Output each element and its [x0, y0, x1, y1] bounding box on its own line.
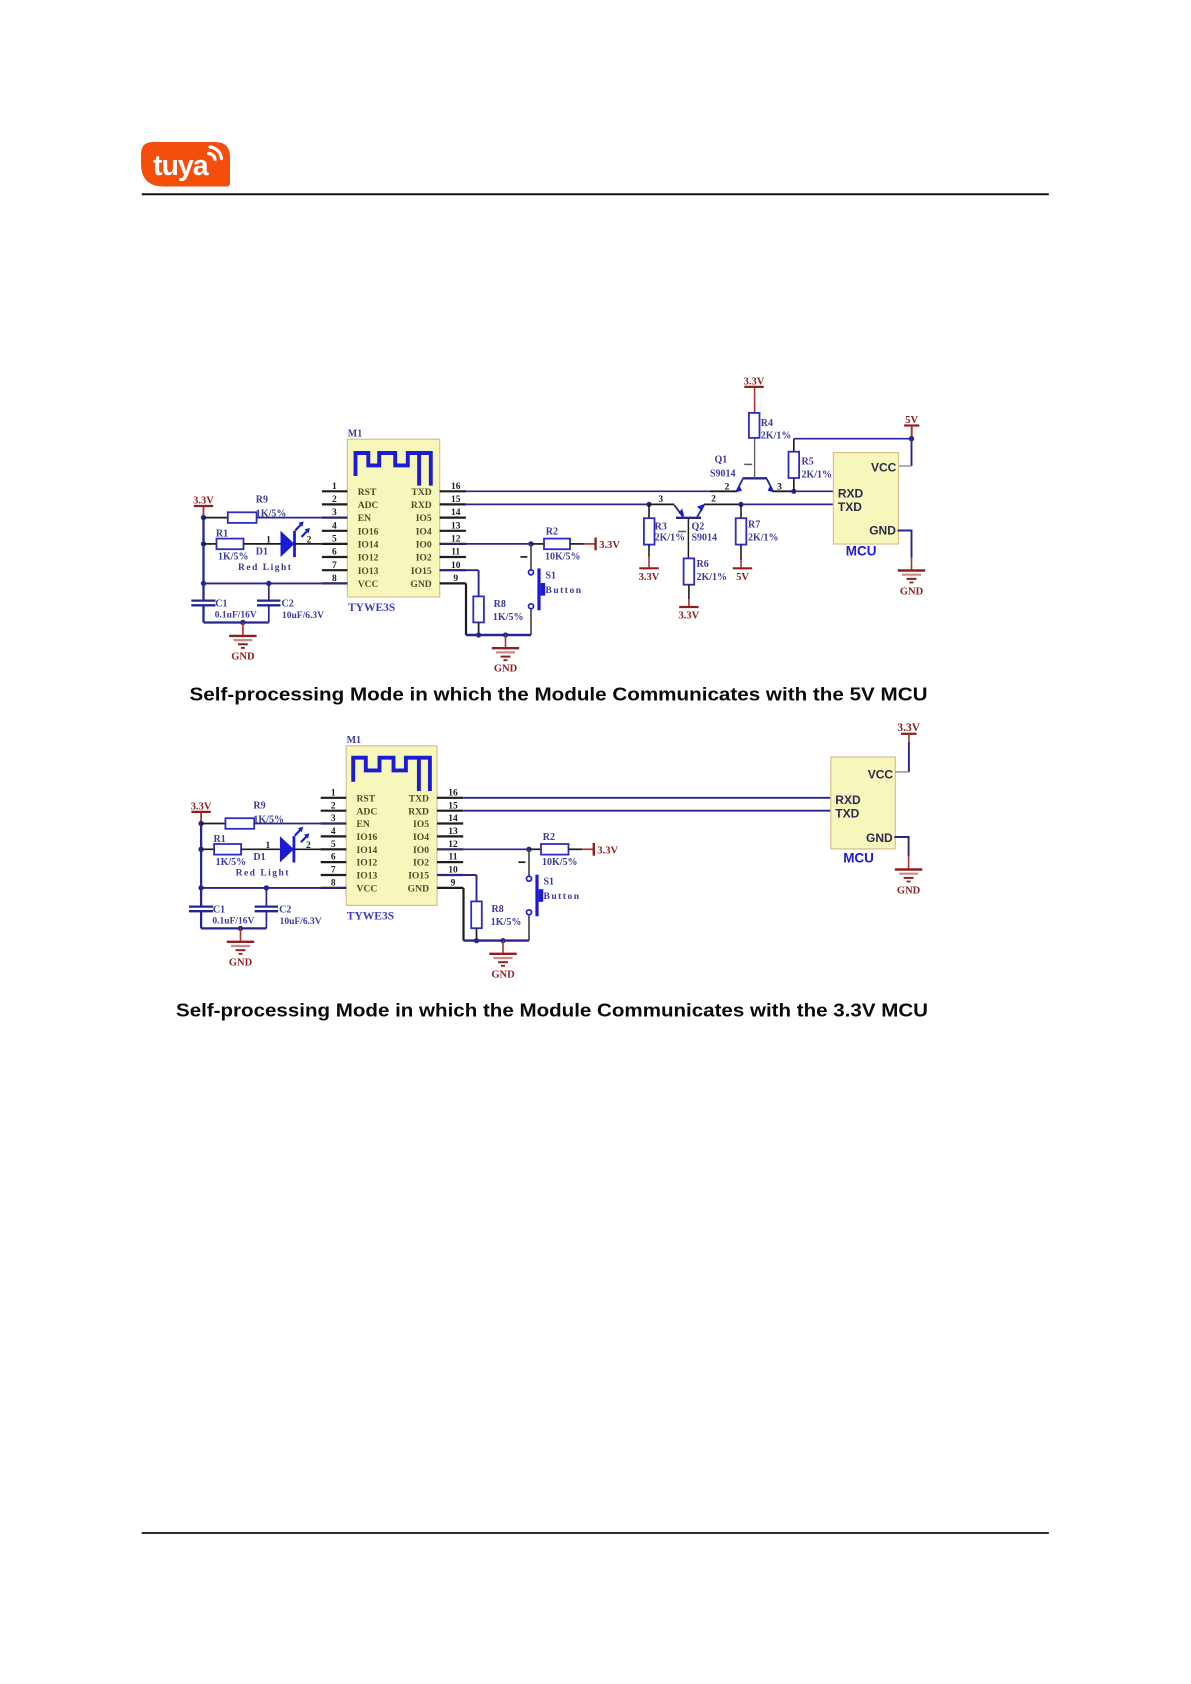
svg-text:2K/1%: 2K/1% [761, 431, 792, 442]
wire MCU GND elbow [899, 531, 912, 558]
wire D1 to IO14 pin s1 [295, 543, 348, 545]
svg-text:IO2: IO2 [416, 553, 432, 564]
svg-text:Button: Button [546, 586, 583, 596]
switch S1 s1 button body [541, 583, 546, 596]
svg-text:1: 1 [266, 841, 271, 851]
svg-text:12: 12 [451, 535, 461, 545]
capacitor C2 s2 plates [255, 905, 279, 907]
svg-text:IO14: IO14 [358, 540, 379, 551]
svg-text:M1: M1 [348, 429, 362, 440]
module M1 pin 8 (VCC) stub [322, 582, 348, 584]
Tuya logo badge [141, 142, 230, 187]
svg-text:GND: GND [900, 587, 924, 598]
svg-text:TYWE3S: TYWE3S [347, 910, 394, 922]
svg-text:R3: R3 [655, 521, 667, 532]
wire left rail lower s1 [202, 605, 204, 622]
svg-text:3.3V: 3.3V [193, 495, 214, 506]
svg-text:15: 15 [451, 495, 461, 505]
module M1 antenna waveform [353, 758, 430, 789]
svg-text:16: 16 [448, 788, 458, 798]
resistor R2-s2 body [541, 844, 569, 855]
wire left rail upper s1 [202, 518, 204, 601]
ground mcu-s2 stem [908, 856, 910, 869]
svg-text:7: 7 [332, 561, 337, 571]
wire 3.3V to MCU VCC (schematic 2) [908, 735, 910, 742]
wire R9 to EN pin s1 [257, 517, 348, 519]
module M1 pin 6 (IO12) stub [321, 861, 347, 863]
ground mid-s2 bars [489, 953, 516, 955]
power 3.3V-left-s1 bar [194, 505, 213, 507]
node R7 junction [738, 502, 743, 507]
svg-text:10uF/6.3V: 10uF/6.3V [280, 917, 322, 927]
resistor R8-s2 body [471, 901, 482, 928]
MCU U1 body [833, 453, 898, 544]
svg-text:RXD: RXD [411, 500, 432, 511]
svg-text:R9: R9 [253, 800, 265, 811]
svg-text:4: 4 [332, 521, 337, 531]
svg-text:IO15: IO15 [411, 566, 432, 577]
module M1 pin 1 (RST) stub [321, 797, 347, 799]
wire TXD row A to Q1 [466, 490, 710, 492]
svg-text:5V: 5V [905, 415, 918, 426]
switch S1 s1 actuator bar [537, 568, 540, 610]
wire R8 to ground rail s2 [476, 928, 478, 940]
wire R2 to 3.3V tap s2 [569, 848, 583, 850]
switch S1 s2 button body [539, 889, 544, 902]
wire R1 to D1 s2 [241, 848, 280, 850]
svg-text:IO16: IO16 [358, 526, 379, 537]
svg-text:R8: R8 [494, 599, 506, 610]
module M1 pin 2 (ADC) stub [321, 810, 347, 812]
resistor R8-s1 body [473, 596, 484, 622]
wire ground rail s2 [464, 939, 530, 941]
svg-text:1: 1 [331, 788, 336, 798]
module M1 pin 16 (TXD) stub [437, 797, 463, 799]
svg-text:2K/1%: 2K/1% [697, 572, 728, 583]
wire Q2 emitter lead [649, 503, 674, 505]
svg-text:TYWE3S: TYWE3S [348, 602, 395, 614]
wire R3 top lead [648, 504, 650, 518]
svg-text:GND: GND [491, 969, 515, 980]
svg-text:D1: D1 [253, 852, 265, 863]
node R8 ground junction s1 [476, 632, 481, 637]
LED D1 s1 emission arrow 2 [302, 530, 309, 537]
wire R2 to 3.3V tap s1 [570, 543, 584, 545]
svg-text:C2: C2 [282, 599, 294, 610]
wire rail to R1 s2 [201, 848, 214, 850]
svg-text:IO4: IO4 [416, 526, 432, 537]
svg-text:IO0: IO0 [416, 540, 432, 551]
node ground junction s2 [238, 926, 243, 931]
node ground junction s1 [240, 620, 245, 625]
switch S1 s2 bottom contact [527, 910, 532, 915]
module M1 pin 4 (IO16) stub [321, 835, 347, 837]
svg-text:IO0: IO0 [413, 845, 429, 856]
svg-text:2K/1%: 2K/1% [655, 532, 686, 543]
svg-text:TXD: TXD [411, 487, 431, 498]
module M1 antenna waveform [356, 453, 431, 484]
svg-text:0.1uF/16V: 0.1uF/16V [212, 917, 254, 927]
module M1 pin 4 (IO16) stub [322, 530, 348, 532]
switch S1 s2 actuator bar [535, 875, 538, 917]
svg-text:5: 5 [332, 535, 337, 545]
wire S1 to ground rail s2 [528, 915, 530, 941]
module M1 body [346, 746, 437, 906]
transistor Q2 polarity dash [678, 531, 686, 533]
Tuya logo wifi arc small [209, 153, 216, 159]
svg-text:GND: GND [229, 957, 253, 968]
resistor R9-s2 body [225, 818, 254, 829]
svg-text:tuya: tuya [153, 150, 210, 182]
svg-text:GND: GND [494, 664, 518, 675]
node R5 bottom junction [791, 489, 796, 494]
svg-text:2: 2 [331, 801, 336, 811]
module M1 pin 15 (RXD) stub [437, 810, 463, 812]
svg-text:9: 9 [451, 879, 456, 889]
svg-text:3.3V: 3.3V [897, 722, 920, 734]
capacitor C1 s1 plates [191, 599, 215, 601]
wire rail to R1 s1 [204, 543, 217, 545]
svg-text:IO5: IO5 [413, 819, 429, 830]
wire junction to MCU RXD [794, 490, 834, 492]
transistor Q1 emitter arrow [736, 485, 742, 492]
wire 3.3V to R4 [754, 388, 756, 413]
module M1 pin 14 (IO5) stub [437, 822, 463, 824]
svg-text:VCC: VCC [868, 768, 894, 782]
svg-text:RXD: RXD [408, 806, 429, 817]
footer rule [142, 1532, 1049, 1534]
wire R3 bottom lead [648, 545, 650, 557]
svg-text:1K/5%: 1K/5% [493, 612, 524, 623]
wire IO15 pin elbow s1 [440, 569, 479, 571]
svg-text:14: 14 [448, 814, 458, 824]
resistor R6 body [684, 558, 695, 584]
svg-text:IO12: IO12 [358, 553, 379, 564]
svg-text:7: 7 [331, 866, 336, 876]
svg-text:IO13: IO13 [358, 566, 379, 577]
resistor R1-s1 body [217, 539, 244, 550]
node 5V rail junction [909, 436, 914, 441]
module M1 pin 1 (RST) stub [322, 490, 348, 492]
module M1 pin 10 (IO15) stub [437, 874, 463, 876]
module M1 pin 9 (GND) stub [440, 582, 466, 584]
svg-text:10K/5%: 10K/5% [545, 552, 581, 563]
svg-text:13: 13 [448, 827, 458, 837]
svg-text:GND: GND [869, 524, 896, 538]
power 3.3V-R3 bar [639, 567, 658, 569]
svg-text:RST: RST [358, 487, 377, 498]
module M1 pin 12 (IO0) stub [440, 543, 466, 545]
wire left rail lower s2 [200, 911, 202, 928]
svg-text:16: 16 [451, 482, 461, 492]
svg-text:3: 3 [331, 814, 336, 824]
transistor Q2 collector arrow [697, 504, 705, 511]
svg-text:TXD: TXD [835, 806, 859, 820]
LED D1 s1 triangle [281, 531, 295, 557]
resistor R9-s1 body [228, 512, 257, 523]
svg-text:11: 11 [449, 853, 458, 863]
resistor R7 body [736, 518, 747, 544]
polarity dash near S1 s1 [520, 556, 527, 558]
svg-text:3: 3 [658, 495, 663, 505]
node R3 junction [646, 502, 651, 507]
svg-text:12: 12 [448, 840, 458, 850]
svg-text:IO15: IO15 [408, 871, 429, 882]
power 3.3V rail top s1 stem [203, 506, 205, 518]
wire Q1 collector lead [773, 490, 794, 492]
svg-text:Q1: Q1 [715, 455, 728, 466]
svg-text:2: 2 [332, 495, 337, 505]
svg-text:RXD: RXD [835, 793, 861, 807]
wire GND pin 9 elbow s2 [462, 887, 464, 889]
svg-text:S1: S1 [544, 877, 555, 888]
node VCC-row junction s1 [201, 581, 206, 586]
svg-text:3: 3 [332, 508, 337, 518]
svg-text:TXD: TXD [838, 500, 862, 514]
svg-text:R2: R2 [546, 527, 558, 538]
ground left-s1 bars [229, 635, 256, 637]
svg-text:2: 2 [711, 494, 716, 504]
module M1 pin 14 (IO5) stub [440, 516, 466, 518]
module M1 pin 7 (IO13) stub [322, 569, 348, 571]
wire MCU GND elbow (schematic 2) [895, 837, 908, 856]
svg-text:15: 15 [448, 801, 458, 811]
svg-text:S9014: S9014 [692, 533, 718, 544]
svg-text:IO14: IO14 [357, 845, 378, 856]
module M1 pin 3 (EN) stub [322, 516, 348, 518]
capacitor C2 s1 lead lower [268, 605, 270, 622]
wire left rail upper s2 [200, 824, 202, 907]
ground mcu-s1 stem [911, 557, 913, 570]
node EN-row junction s2 [198, 821, 203, 826]
resistor R4 body [749, 413, 760, 438]
wire junction to R2 s1 [531, 543, 544, 545]
svg-text:3.3V: 3.3V [744, 376, 765, 387]
svg-text:GND: GND [410, 579, 431, 590]
module M1 pin 13 (IO4) stub [437, 835, 463, 837]
module M1 pin 6 (IO12) stub [322, 556, 348, 558]
svg-text:MCU: MCU [843, 851, 874, 866]
svg-text:S9014: S9014 [710, 469, 736, 480]
svg-text:C2: C2 [279, 905, 291, 916]
transistor Q1 collector slant [767, 479, 773, 491]
node C2 top junction s2 [264, 885, 269, 890]
LED D1 s1 emission arrow 1 [295, 523, 302, 530]
svg-text:VCC: VCC [358, 579, 379, 590]
svg-text:13: 13 [451, 521, 461, 531]
node C2 top junction s1 [266, 581, 271, 586]
module M1 pin 2 (ADC) stub [322, 503, 348, 505]
svg-text:14: 14 [451, 508, 461, 518]
header rule [142, 193, 1049, 195]
module M1 pin 9 (GND) stub [437, 887, 463, 889]
svg-text:R2: R2 [543, 832, 555, 843]
LED D1 s2 triangle [280, 836, 294, 862]
resistor R2-s1 body [544, 539, 570, 550]
power 3.3V-mcu2 bar [901, 733, 917, 735]
resistor R3 body [644, 518, 655, 544]
power 3.3V-left-s2 bar [191, 811, 210, 813]
module M1 pin 15 (RXD) stub [440, 503, 466, 505]
resistor R5 body [789, 452, 800, 478]
module M1 pin 13 (IO4) stub [440, 530, 466, 532]
svg-text:3.3V: 3.3V [639, 572, 660, 583]
switch S1 s1 bottom contact [529, 604, 534, 609]
svg-text:5V: 5V [736, 572, 749, 583]
wire module RXD to MCU TXD (schematic 2) [463, 810, 831, 812]
resistor R1-s2 body [214, 844, 241, 855]
module M1 pin 11 (IO2) stub [437, 861, 463, 863]
svg-text:M1: M1 [347, 735, 361, 746]
node ground symbol junction s1 [503, 632, 508, 637]
svg-text:D1: D1 [256, 547, 268, 558]
svg-text:MCU: MCU [846, 543, 877, 558]
wire 5V to rail junction [911, 427, 913, 439]
module M1 pin 12 (IO0) stub [437, 848, 463, 850]
wire Q1 emitter lead [710, 490, 737, 492]
svg-text:IO12: IO12 [357, 858, 378, 869]
wire R7 bottom lead [740, 545, 742, 560]
ground mid-s1 bars [492, 647, 519, 649]
module M1 pin 7 (IO13) stub [321, 874, 347, 876]
svg-text:IO5: IO5 [416, 513, 432, 524]
transistor Q2 base lead [687, 518, 689, 559]
wire RXD row B to R3 junction [466, 503, 649, 505]
svg-text:C1: C1 [215, 599, 227, 610]
transistor Q1 collector arrow [768, 485, 774, 492]
ground mid-s2 stem [502, 941, 504, 953]
svg-text:3.3V: 3.3V [679, 611, 700, 622]
wire R5 to 5V rail [794, 438, 912, 440]
svg-text:IO16: IO16 [357, 832, 378, 843]
resistor R5 top lead [793, 439, 795, 452]
module M1 pin 3 (EN) stub [321, 822, 347, 824]
wire rail to R9 s1 [204, 517, 228, 519]
power 3.3V-R2-s1 bar [594, 538, 596, 551]
svg-text:R6: R6 [697, 559, 709, 570]
capacitor C2 s1 lead upper [268, 583, 270, 600]
wire junction to MCU TXD [741, 503, 833, 505]
ground mid-s1 stem [505, 635, 507, 647]
svg-text:RST: RST [357, 793, 376, 804]
svg-text:3.3V: 3.3V [191, 801, 212, 812]
transistor Q1 base bar [742, 477, 767, 479]
node R1-row junction s2 [198, 847, 203, 852]
wire junction to R2 s2 [529, 848, 541, 850]
transistor Q2 emitter slant [674, 505, 683, 517]
svg-text:GND: GND [866, 831, 893, 845]
module M1 body [347, 439, 439, 597]
capacitor C2 s1 plates [257, 599, 281, 601]
ground mcu-s1 bars [898, 569, 925, 571]
wire VCC row s2 [201, 887, 346, 889]
svg-text:Self-processing Mode in which: Self-processing Mode in which the Module… [190, 684, 928, 705]
transistor Q1 polarity dash [744, 463, 752, 465]
ground mcu-s2 bars [895, 868, 922, 870]
module M1 pin 10 (IO15) stub [440, 569, 466, 571]
module M1 pin 8 (VCC) stub [321, 887, 347, 889]
wire Q2 collector lead [704, 503, 741, 505]
svg-text:GND: GND [231, 651, 255, 662]
svg-text:RXD: RXD [838, 487, 864, 501]
power 5V-R7 bar [733, 567, 752, 569]
svg-text:5: 5 [331, 840, 336, 850]
capacitor C2 s2 lead lower [265, 911, 267, 928]
svg-text:6: 6 [331, 853, 336, 863]
svg-text:Button: Button [544, 892, 581, 902]
power 5V-top bar [904, 424, 919, 426]
svg-text:2: 2 [725, 482, 730, 492]
node VCC-row junction s2 [198, 885, 203, 890]
ground left-s1 stem [242, 623, 244, 635]
svg-text:6: 6 [332, 548, 337, 558]
svg-text:10uF/6.3V: 10uF/6.3V [282, 611, 324, 621]
svg-text:R5: R5 [802, 457, 814, 468]
wire rail to R9 s2 [201, 823, 225, 825]
svg-text:4: 4 [331, 827, 336, 837]
svg-text:R7: R7 [748, 520, 760, 531]
svg-text:GND: GND [408, 884, 429, 895]
transistor Q2 collector slant [697, 505, 704, 517]
Tuya logo wifi arc large [210, 147, 222, 159]
svg-text:1K/5%: 1K/5% [218, 551, 249, 562]
power 3.3V-R4 bar [744, 386, 763, 388]
svg-text:EN: EN [357, 819, 370, 830]
svg-text:3.3V: 3.3V [599, 540, 620, 551]
wire 5V rail down to MCU VCC [911, 439, 913, 466]
svg-text:C1: C1 [213, 905, 225, 916]
wire R8 to ground rail s1 [478, 622, 480, 635]
switch S1 s2 top contact [527, 876, 532, 881]
svg-text:ADC: ADC [357, 806, 378, 817]
ground left-s2 stem [240, 928, 242, 940]
LED D1 s2 cathode bar [292, 836, 295, 862]
svg-text:Red Light: Red Light [238, 563, 292, 573]
wire IO15 pin elbow s2 [437, 874, 477, 876]
svg-text:10K/5%: 10K/5% [542, 857, 578, 868]
wire R9 to EN pin s2 [254, 823, 346, 825]
svg-text:Q2: Q2 [692, 521, 705, 532]
transistor Q1 base lead [754, 438, 756, 478]
svg-text:2K/1%: 2K/1% [802, 470, 833, 481]
svg-text:R8: R8 [492, 904, 504, 915]
wire junction down to S1 s1 [530, 544, 532, 570]
wire R7 top lead [740, 504, 742, 518]
ground left-s2 bars [227, 941, 254, 943]
LED D1 s2 emission arrow 2 [301, 835, 308, 842]
svg-text:11: 11 [451, 548, 460, 558]
wire module TXD to MCU RXD (schematic 2) [463, 797, 831, 799]
capacitor C2 s2 lead upper [265, 888, 267, 907]
wire ground rail bottom s2 [201, 927, 266, 929]
wire S1 to ground rail s1 [530, 609, 532, 635]
svg-text:1K/5%: 1K/5% [216, 857, 247, 868]
power 3.3V-R2-s2 bar [593, 843, 595, 856]
svg-text:1K/5%: 1K/5% [491, 917, 522, 928]
node R1-row junction s1 [201, 541, 206, 546]
transistor Q2 emitter arrow [679, 508, 685, 516]
module M1 pin 5 (IO14) stub [321, 848, 347, 850]
power 3.3V rail top s2 stem [200, 812, 202, 824]
switch S1 s1 top contact [529, 570, 534, 575]
module M1 pin 16 (TXD) stub [440, 490, 466, 492]
svg-text:R1: R1 [214, 834, 226, 845]
node R8 ground junction s2 [474, 938, 479, 943]
svg-text:0.1uF/16V: 0.1uF/16V [215, 611, 257, 621]
transistor Q2 base bar [676, 517, 701, 519]
svg-text:EN: EN [358, 513, 371, 524]
wire ground rail s1 [466, 634, 531, 636]
